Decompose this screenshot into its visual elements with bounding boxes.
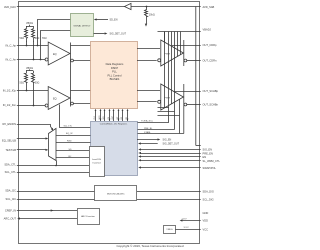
svg-text:IN_C_An: IN_C_An — [5, 57, 16, 61]
svg-text:10kΩ: 10kΩ — [149, 14, 155, 17]
wire mux out 4 — [56, 157, 89, 159]
svg-text:OUT_CDRp: OUT_CDRp — [203, 43, 218, 47]
svg-text:SIG_EN: SIG_EN — [203, 148, 213, 152]
svg-text:SCL_DIG: SCL_DIG — [203, 197, 214, 201]
wire pin SL_WRM_CTL — [140, 160, 201, 162]
svg-text:PLL: PLL — [112, 70, 117, 74]
svg-text:IN_1/2_IGp: IN_1/2_IGp — [3, 88, 17, 92]
svg-text:MDIO/I2C/ALDEC: MDIO/I2C/ALDEC — [107, 193, 125, 196]
svg-text:IN_C_Ap: IN_C_Ap — [5, 43, 16, 47]
svg-text:PRE_BL: PRE_BL — [144, 128, 153, 130]
svg-text:Copyright © 2016, Texas Instru: Copyright © 2016, Texas Instruments Inco… — [116, 244, 183, 248]
wire output bar A — [183, 40, 185, 66]
svg-text:RXD: RXD — [67, 141, 72, 143]
svg-text:ARC Function: ARC Function — [81, 215, 95, 218]
wire ARC_OUT with left arrow — [19, 218, 77, 220]
wire amp U1 output n — [74, 60, 91, 62]
svg-text:VBIAS: VBIAS — [26, 67, 33, 70]
svg-text:50Ω: 50Ω — [20, 37, 25, 40]
wire CREF_IN with arrow — [17, 210, 77, 212]
svg-text:VREG: VREG — [166, 229, 172, 231]
wire IN_1/2_IGn — [17, 105, 45, 107]
block VREG — [164, 226, 176, 234]
svg-text:EQ_SEL/LB: EQ_SEL/LB — [2, 139, 16, 143]
wire output bar B — [183, 84, 185, 110]
svg-text:EN: EN — [203, 155, 207, 159]
wire SDA_I2C — [17, 191, 95, 193]
wire amp A input p — [137, 48, 160, 50]
svg-text:Level/OS: Level/OS — [92, 159, 102, 161]
wire loop 3 — [158, 115, 180, 117]
wire mux bottom stub — [56, 161, 58, 166]
svg-text:Control/Block, I2C Registers: Control/Block, I2C Registers — [100, 123, 128, 126]
wire SCL_CTL — [17, 172, 89, 174]
wire amp U1 output bar — [70, 43, 72, 64]
mux M1 — [49, 128, 57, 160]
svg-text:SDA_CTL: SDA_CTL — [4, 162, 16, 166]
block U5 control registers — [91, 122, 138, 176]
resistor R2 50ohm — [32, 29, 35, 42]
wire VCC 3.3V — [175, 229, 200, 231]
buffer U3 on rail — [125, 3, 132, 9]
wire SDA_DIG right — [137, 191, 201, 193]
wire amp B input n — [137, 101, 157, 103]
wire SCL_DIG right — [137, 199, 201, 201]
svg-text:DSKP: DSKP — [111, 66, 119, 70]
wire bar link U1 to U2 — [70, 64, 72, 88]
wire amp B output n — [184, 103, 187, 106]
signal detect block — [71, 14, 94, 37]
wire amp A input n — [137, 60, 157, 62]
svg-text:VBADJ: VBADJ — [203, 28, 212, 32]
wire amp B output p — [172, 91, 201, 93]
svg-text:RX_EN/FIN: RX_EN/FIN — [2, 122, 16, 126]
wire pin EN — [140, 156, 201, 158]
svg-text:SCL_I2C: SCL_I2C — [5, 197, 16, 201]
svg-text:50Ω: 50Ω — [35, 82, 40, 85]
wire VDD 1.8V with left arrow — [181, 220, 201, 222]
svg-text:OUT_SCHBn: OUT_SCHBn — [203, 102, 219, 106]
svg-text:PRE_EN: PRE_EN — [203, 151, 214, 155]
wire riser 2 — [177, 32, 179, 57]
svg-text:PWM: PWM — [165, 53, 171, 55]
wire AVD_DAC power rail — [17, 6, 201, 8]
resistor R3 50ohm — [25, 74, 28, 86]
wire EQ_SEL into mux — [17, 138, 47, 140]
op-amp U1 EQ — [45, 58, 48, 61]
svg-text:ARC_OUT: ARC_OUT — [4, 216, 17, 220]
svg-text:1.8 V: 1.8 V — [182, 219, 188, 221]
svg-text:STABL: STABL — [144, 131, 152, 134]
svg-text:EQ_W: EQ_W — [66, 133, 73, 135]
svg-text:SDA_DIG: SDA_DIG — [203, 189, 214, 193]
wire riser VBADJ to amp A — [164, 32, 166, 44]
node tap Ap to signal detect — [38, 20, 71, 46]
wire RX_EN into mux — [17, 125, 53, 130]
wire long rail drop to border — [195, 7, 197, 146]
svg-text:SQ_CTL: SQ_CTL — [64, 126, 73, 128]
op-amp U2 EQ — [45, 104, 48, 107]
wire amp A output p — [172, 45, 201, 47]
wire SIG_DET_OUT with left arrow — [138, 142, 141, 144]
wire bar B drop — [183, 110, 185, 134]
svg-text:Data Registers: Data Registers — [106, 62, 124, 66]
svg-text:PWM: PWM — [165, 97, 171, 99]
svg-text:SIG_DET_OUT: SIG_DET_OUT — [110, 33, 127, 36]
svg-text:TEST/LB: TEST/LB — [5, 148, 16, 152]
wire IN_C_Ap — [17, 45, 49, 47]
wire amp U2 output p — [71, 90, 91, 92]
wire bus stubs pink to blue — [94, 109, 128, 121]
resistor R5 10k — [145, 7, 148, 18]
block U8 ARC function — [78, 209, 100, 225]
svg-text:SIGNAL DETECT: SIGNAL DETECT — [73, 24, 91, 27]
wire IN_1/2_IGp — [17, 90, 49, 92]
chip outline — [19, 2, 200, 244]
resistor R1 50ohm — [25, 29, 28, 42]
wire bundle through amp A and amp B — [164, 32, 166, 108]
wire amp U2 output bar — [70, 88, 72, 107]
op-amp B output driver — [158, 100, 161, 103]
svg-text:OUT_CDRn: OUT_CDRn — [203, 58, 218, 62]
svg-text:SL_WRM_CTL: SL_WRM_CTL — [203, 159, 221, 163]
wire resistor to internal arrow — [146, 18, 148, 24]
wire pin PRE_EN — [140, 153, 201, 155]
block U4 data registers — [91, 42, 138, 109]
wire R2 to IN_C_An — [33, 41, 35, 60]
wire R3 to IN_1/2_IGp — [26, 86, 28, 91]
svg-text:EQ: EQ — [53, 97, 57, 100]
svg-text:GND: GND — [203, 211, 209, 215]
svg-text:EQ: EQ — [53, 53, 57, 56]
wire loop 1 TCK — [138, 108, 169, 123]
svg-text:PLL Control: PLL Control — [107, 73, 121, 77]
svg-text:VCC: VCC — [203, 228, 209, 232]
svg-text:SIG_EN: SIG_EN — [163, 139, 172, 142]
wire SIG_EN with right arrow — [137, 139, 158, 141]
block U7 MDIO/I2C — [95, 186, 137, 201]
wire pin SWAP/POL — [140, 167, 201, 169]
svg-text:SWAP/POL: SWAP/POL — [203, 166, 217, 170]
svg-text:OUT_SCHBp: OUT_SCHBp — [203, 89, 219, 93]
svg-text:CREF_IN: CREF_IN — [5, 208, 16, 212]
svg-text:SIG_DET_OUT: SIG_DET_OUT — [163, 143, 180, 146]
block U6 level/os inverted — [90, 147, 105, 177]
svg-text:AVD_SAB: AVD_SAB — [203, 5, 215, 9]
svg-text:TCK/A_SCL: TCK/A_SCL — [141, 120, 154, 123]
wire SCL_I2C — [17, 199, 95, 201]
svg-text:VBIAS: VBIAS — [26, 22, 33, 25]
svg-text:SCL_CTL: SCL_CTL — [5, 170, 17, 174]
wire IN_C_An — [17, 59, 45, 61]
svg-text:BIASES: BIASES — [110, 77, 120, 81]
wire SIG_DET_OUT with right arrow — [94, 33, 105, 35]
wire amp B input p — [137, 90, 160, 92]
svg-text:Inverted: Inverted — [93, 162, 102, 165]
wire loop 2 — [158, 111, 175, 113]
wire TEST into mux — [17, 149, 47, 151]
wire amp U2 output n — [74, 103, 91, 105]
wire amp A output n — [184, 59, 187, 62]
svg-text:AVD_DAC: AVD_DAC — [4, 5, 16, 9]
wire VBADJ — [158, 31, 201, 33]
svg-text:SDO: SDO — [99, 115, 101, 119]
wire mux out 1 — [56, 135, 91, 137]
svg-text:3.3 V: 3.3 V — [184, 227, 190, 229]
svg-text:SDI: SDI — [103, 116, 105, 119]
wire R4 to IN_1/2_IGn — [33, 86, 35, 106]
wire SD_EN with left arrow — [94, 18, 97, 20]
wire pin SIG_EN — [140, 149, 201, 151]
svg-text:RJ: RJ — [69, 156, 72, 158]
wire mux out 2 — [56, 142, 91, 144]
svg-text:SDA_I2C: SDA_I2C — [5, 189, 16, 193]
svg-text:SD_EN: SD_EN — [110, 19, 118, 22]
node tap An to signal detect — [41, 31, 71, 60]
wire amp U2 monitor down — [60, 105, 91, 128]
svg-text:SD: SD — [69, 149, 72, 151]
resistor R4 50ohm — [32, 74, 35, 86]
wire amp U1 output p — [71, 45, 91, 47]
wire riser 3 — [180, 32, 182, 55]
svg-text:50Ω: 50Ω — [20, 82, 25, 85]
svg-text:VDD: VDD — [203, 219, 209, 223]
wire mux out 3 — [56, 150, 89, 152]
svg-text:IN_1/2_IGn: IN_1/2_IGn — [3, 103, 17, 107]
wire R1 to IN_C_Ap — [26, 41, 28, 46]
node rail junction — [146, 6, 148, 8]
svg-text:SWI: SWI — [42, 37, 47, 40]
wire SDA_CTL — [17, 165, 89, 167]
op-amp A output driver — [158, 59, 161, 62]
